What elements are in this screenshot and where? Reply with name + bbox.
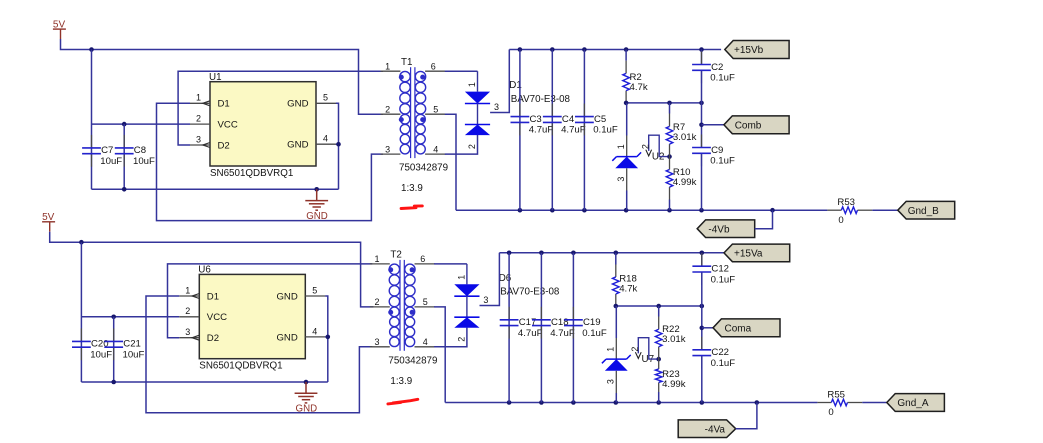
shunt reference U2 bbox=[612, 144, 664, 181]
resistor R53 bbox=[827, 197, 872, 226]
svg-text:1: 1 bbox=[467, 82, 477, 87]
wire R10 bottom bbox=[669, 200, 671, 211]
svg-text:U6: U6 bbox=[198, 265, 211, 276]
wire T2 pin5 down bbox=[434, 307, 445, 403]
svg-text:10uF: 10uF bbox=[123, 350, 145, 361]
wire C18 column bbox=[540, 253, 542, 403]
resistor R18 bbox=[613, 265, 638, 307]
svg-text:Comb: Comb bbox=[735, 120, 762, 131]
wire U6 GND pins bbox=[325, 296, 328, 382]
svg-text:0.1uF: 0.1uF bbox=[710, 156, 735, 167]
U7 anode pin bbox=[615, 371, 617, 393]
IC U6 bbox=[179, 265, 325, 372]
svg-text:5: 5 bbox=[433, 104, 438, 114]
svg-text:D2: D2 bbox=[207, 333, 219, 344]
junction -4Va rail x658.2 bbox=[656, 400, 661, 405]
svg-text:GND: GND bbox=[287, 140, 308, 151]
svg-text:2: 2 bbox=[374, 297, 379, 307]
junction Comb-R7 bbox=[667, 101, 672, 106]
svg-text:6: 6 bbox=[420, 254, 425, 264]
junction +15Va bus x508.6 bbox=[507, 251, 512, 256]
junction -4Va rail x756.3 bbox=[755, 400, 760, 405]
junction top bus x583.9 bbox=[582, 47, 587, 52]
junction top bus x519.4 bbox=[518, 47, 523, 52]
wire U1 pin4 stub bbox=[336, 143, 339, 145]
svg-text:4.7uF: 4.7uF bbox=[529, 125, 554, 136]
wire C12 to Coma bbox=[701, 273, 703, 350]
svg-text:2: 2 bbox=[196, 114, 201, 124]
svg-text:4.7k: 4.7k bbox=[619, 284, 637, 295]
wire R55 to Gnd_A bbox=[862, 402, 887, 404]
svg-text:C7: C7 bbox=[101, 145, 113, 156]
wire +15Vb bus (top) bbox=[509, 49, 721, 51]
svg-text:1: 1 bbox=[185, 285, 190, 295]
svg-text:1: 1 bbox=[456, 275, 466, 280]
svg-text:3: 3 bbox=[385, 144, 390, 154]
svg-text:3: 3 bbox=[374, 337, 379, 347]
wire T1 pin6 to D1 bbox=[445, 70, 478, 72]
capacitor C20 bbox=[72, 328, 112, 360]
wire U6 pin4 stub bbox=[325, 336, 328, 338]
capacitor C19 bbox=[564, 307, 607, 339]
svg-text:C17: C17 bbox=[519, 317, 537, 328]
svg-text:D1: D1 bbox=[218, 99, 230, 110]
wire ground rail (bottom) bbox=[81, 381, 327, 383]
svg-text:Gnd_A: Gnd_A bbox=[897, 398, 928, 409]
wire -4Vb tag bbox=[755, 210, 773, 229]
port +15Vb bbox=[725, 41, 789, 59]
transformer T2 bbox=[370, 250, 438, 387]
capacitor C9 bbox=[692, 135, 735, 167]
wire -4Va tag bbox=[736, 403, 757, 429]
svg-text:GND: GND bbox=[276, 291, 297, 302]
junction -4Vb rail x701 bbox=[699, 208, 704, 213]
dual diode D6 bbox=[454, 264, 560, 342]
junction (top 5V bus) bbox=[89, 47, 94, 52]
resistor R2 bbox=[623, 61, 648, 103]
junction -4Va rail x572.9 bbox=[571, 400, 576, 405]
svg-text:+15Va: +15Va bbox=[734, 249, 763, 260]
svg-text:C22: C22 bbox=[711, 347, 729, 358]
junction top bus x701 bbox=[699, 47, 704, 52]
wire U1 GND pins (top) bbox=[336, 103, 339, 189]
svg-text:4.7uF: 4.7uF bbox=[518, 328, 543, 339]
svg-text:2: 2 bbox=[467, 144, 477, 149]
svg-text:0.1uF: 0.1uF bbox=[711, 358, 736, 369]
svg-text:3: 3 bbox=[616, 177, 626, 182]
svg-text:VCC: VCC bbox=[218, 120, 238, 131]
svg-text:-4Va: -4Va bbox=[705, 424, 726, 435]
svg-text:VCC: VCC bbox=[207, 312, 227, 323]
wire R2 top bbox=[625, 50, 627, 61]
resistor R23 bbox=[655, 359, 685, 392]
junction U7 ref node bbox=[656, 357, 661, 362]
junction Coma-C12col bbox=[700, 304, 705, 309]
junction -4Vb rail x772 bbox=[770, 208, 775, 213]
svg-text:C21: C21 bbox=[123, 339, 141, 350]
wire D6 out to +15Va bus bbox=[480, 253, 500, 306]
port +15Va bbox=[724, 244, 790, 262]
wire VCC rail (top) bbox=[92, 123, 191, 125]
svg-text:SN6501QDBVRQ1: SN6501QDBVRQ1 bbox=[210, 168, 293, 179]
junction Coma-R18 bbox=[614, 304, 619, 309]
svg-text:R53: R53 bbox=[837, 197, 855, 208]
wire C19 column bbox=[572, 253, 574, 403]
junction -4Va rail x615.3 bbox=[614, 400, 619, 405]
svg-text:3: 3 bbox=[606, 379, 616, 384]
capacitor C4 bbox=[543, 104, 586, 136]
wire VCC drop (bottom) bbox=[80, 242, 82, 382]
svg-text:3.01k: 3.01k bbox=[662, 334, 686, 345]
junction U1 pin4 bbox=[336, 142, 341, 147]
U2 cathode pin bbox=[626, 136, 628, 157]
svg-text:2: 2 bbox=[630, 347, 640, 352]
svg-text:R55: R55 bbox=[827, 389, 845, 400]
junction +15Va bus x615.3 bbox=[614, 251, 619, 256]
wire C12 column top bbox=[701, 253, 703, 266]
U2 anode pin bbox=[626, 168, 628, 190]
svg-text:3: 3 bbox=[483, 295, 488, 305]
U7 cathode pin bbox=[615, 338, 617, 359]
junction U2 ref node bbox=[667, 154, 672, 159]
svg-text:1: 1 bbox=[385, 61, 390, 71]
wire Comb tag stub bbox=[702, 124, 724, 126]
shunt reference U7 bbox=[602, 347, 654, 384]
junction +15Va bus x540.9 bbox=[539, 251, 544, 256]
svg-text:T1: T1 bbox=[401, 57, 412, 68]
svg-text:C5: C5 bbox=[594, 114, 606, 125]
capacitor C2 bbox=[692, 52, 735, 84]
wire -4Vb rail bbox=[456, 209, 827, 211]
svg-text:2: 2 bbox=[456, 337, 466, 342]
port Comb bbox=[724, 116, 789, 134]
wire C4 column bbox=[551, 50, 553, 211]
junction -4Va rail x508.6 bbox=[507, 400, 512, 405]
capacitor C17 bbox=[500, 307, 543, 339]
svg-text:4.7k: 4.7k bbox=[630, 82, 648, 93]
junction -4Va rail x701.3 bbox=[700, 400, 705, 405]
wire U2 cathode bbox=[626, 103, 628, 136]
svg-text:1: 1 bbox=[616, 144, 626, 149]
wire U6 D2 to T2 pin1 bbox=[168, 264, 373, 338]
resistor R22 bbox=[655, 317, 685, 360]
svg-text:C18: C18 bbox=[551, 317, 569, 328]
wire U7 cathode bbox=[615, 306, 617, 338]
svg-text:C3: C3 bbox=[530, 114, 542, 125]
port -4Va bbox=[678, 420, 736, 438]
svg-text:0: 0 bbox=[838, 215, 843, 226]
wire T2 pin4 to D6 bbox=[434, 328, 467, 347]
svg-text:750342879: 750342879 bbox=[399, 163, 448, 174]
wire C17 column bbox=[508, 253, 510, 403]
wire U6 D1 to T2 pin3 bbox=[146, 296, 372, 413]
wire C9 bottom bbox=[701, 154, 703, 210]
svg-text:1:3.9: 1:3.9 bbox=[390, 376, 412, 387]
wire R53 to Gnd_B bbox=[872, 209, 898, 211]
svg-text:Gnd_B: Gnd_B bbox=[908, 206, 939, 217]
port Coma bbox=[713, 319, 780, 337]
wire R18 top bbox=[615, 253, 617, 265]
wire U1 D1 to T1 pin3 bbox=[157, 103, 384, 220]
svg-text:0.1uF: 0.1uF bbox=[582, 328, 607, 339]
svg-text:C4: C4 bbox=[562, 114, 575, 125]
wire C22 bottom bbox=[701, 356, 703, 402]
svg-text:0.1uF: 0.1uF bbox=[593, 125, 618, 136]
port Gnd_A bbox=[887, 394, 945, 412]
ground GND (top) bbox=[305, 189, 328, 222]
svg-text:6: 6 bbox=[431, 61, 436, 71]
resistor R10 bbox=[666, 157, 696, 200]
svg-text:3: 3 bbox=[494, 102, 499, 112]
junction -4Vb rail x669 bbox=[667, 208, 672, 213]
svg-text:C12: C12 bbox=[711, 264, 729, 275]
svg-text:C8: C8 bbox=[134, 145, 146, 156]
junction C21 top bbox=[111, 315, 116, 320]
transformer T1 bbox=[381, 57, 449, 194]
wire Comb rail bbox=[626, 102, 701, 104]
wire T1 pin4 to D1 bbox=[445, 135, 478, 154]
junction C8 bottom bbox=[122, 187, 127, 192]
svg-text:4: 4 bbox=[312, 326, 317, 336]
capacitor C7 bbox=[82, 135, 122, 167]
wire T1 pin5 down bbox=[445, 114, 456, 210]
svg-text:C19: C19 bbox=[583, 317, 601, 328]
svg-text:5: 5 bbox=[423, 297, 428, 307]
reference pin wire U7 ref bbox=[630, 338, 659, 359]
svg-text:750342879: 750342879 bbox=[388, 355, 437, 366]
svg-text:D2: D2 bbox=[218, 140, 230, 151]
wire R23 bottom bbox=[658, 392, 660, 403]
svg-text:4.7uF: 4.7uF bbox=[550, 328, 575, 339]
ground GND (bottom) bbox=[295, 382, 318, 415]
wire -4Va rail bbox=[445, 402, 817, 404]
junction Comb-R2 bbox=[624, 101, 629, 106]
svg-text:1: 1 bbox=[196, 93, 201, 103]
resistor R7 bbox=[666, 114, 696, 157]
wire 5V to bus (bottom) bbox=[50, 232, 374, 307]
wire C2 to Comb bbox=[701, 71, 703, 147]
svg-text:U1: U1 bbox=[209, 72, 222, 83]
junction U6 pin4 bbox=[326, 335, 331, 340]
capacitor C21 bbox=[104, 328, 144, 360]
junction +15Va bus x701.3 bbox=[700, 251, 705, 256]
svg-text:4.99k: 4.99k bbox=[662, 379, 686, 390]
svg-text:1: 1 bbox=[606, 347, 616, 352]
wire Coma tag stub bbox=[702, 327, 713, 329]
reference pin wire U2 ref bbox=[640, 135, 669, 156]
junction Coma-R22 bbox=[656, 304, 661, 309]
red annotation mark under T2 bbox=[388, 399, 418, 404]
wire +15Va bus bbox=[499, 252, 724, 254]
svg-text:1:3.9: 1:3.9 bbox=[401, 183, 423, 194]
svg-text:2: 2 bbox=[385, 104, 390, 114]
junction top bus x625.6 bbox=[624, 47, 629, 52]
svg-text:4.99k: 4.99k bbox=[673, 177, 697, 188]
capacitor C18 bbox=[532, 307, 575, 339]
junction Coma tag bbox=[700, 326, 705, 331]
wire C21 branch bbox=[113, 317, 115, 382]
svg-text:C20: C20 bbox=[91, 339, 109, 350]
junction -4Vb rail x519.4 bbox=[518, 208, 523, 213]
resistor R55 bbox=[817, 389, 862, 418]
svg-text:1: 1 bbox=[374, 254, 379, 264]
wire U7 anode bbox=[615, 393, 617, 403]
junction Comb-C2col bbox=[699, 101, 704, 106]
svg-text:+15Vb: +15Vb bbox=[734, 45, 764, 56]
wire Coma rail bbox=[616, 305, 702, 307]
svg-text:4: 4 bbox=[323, 134, 328, 144]
svg-text:3.01k: 3.01k bbox=[673, 132, 697, 143]
svg-text:0.1uF: 0.1uF bbox=[710, 73, 735, 84]
svg-text:4: 4 bbox=[423, 337, 428, 347]
svg-text:4.7uF: 4.7uF bbox=[561, 125, 586, 136]
wire VCC drop (top) bbox=[91, 50, 93, 190]
red annotation mark under T1 bbox=[401, 206, 422, 209]
wire R22 top bbox=[658, 306, 660, 317]
capacitor C12 bbox=[692, 253, 735, 285]
svg-text:0: 0 bbox=[828, 407, 833, 418]
junction -4Vb rail x551.8 bbox=[550, 208, 555, 213]
junction +15Va bus x572.9 bbox=[571, 251, 576, 256]
capacitor C8 bbox=[115, 135, 155, 167]
junction (bottom 5V bus) bbox=[79, 240, 84, 245]
wire U2 anode bbox=[626, 191, 628, 211]
wire T2 pin6 to D6 bbox=[434, 263, 467, 265]
svg-text:GND: GND bbox=[287, 99, 308, 110]
svg-text:10uF: 10uF bbox=[100, 156, 122, 167]
capacitor C22 bbox=[692, 337, 735, 369]
svg-text:10uF: 10uF bbox=[133, 156, 155, 167]
svg-text:4: 4 bbox=[433, 144, 438, 154]
svg-text:3: 3 bbox=[196, 134, 201, 144]
svg-text:GND: GND bbox=[276, 332, 297, 343]
wire C3 column bbox=[519, 50, 521, 211]
junction -4Va rail x540.9 bbox=[539, 400, 544, 405]
svg-text:5: 5 bbox=[312, 285, 317, 295]
svg-text:-4Vb: -4Vb bbox=[708, 224, 730, 235]
svg-text:C9: C9 bbox=[711, 145, 723, 156]
svg-text:SN6501QDBVRQ1: SN6501QDBVRQ1 bbox=[199, 361, 282, 372]
svg-text:D1: D1 bbox=[207, 291, 219, 302]
junction top bus x551.8 bbox=[550, 47, 555, 52]
svg-text:0.1uF: 0.1uF bbox=[711, 274, 736, 285]
port -4Vb bbox=[697, 220, 755, 238]
svg-text:Coma: Coma bbox=[725, 323, 752, 334]
svg-text:3: 3 bbox=[185, 327, 190, 337]
power port 5V (bottom) bbox=[42, 212, 55, 232]
junction -4Vb rail x583.9 bbox=[582, 208, 587, 213]
junction C8 top bbox=[122, 122, 127, 127]
wire C8 branch bbox=[123, 124, 125, 189]
dual diode D1 bbox=[465, 71, 571, 149]
wire VCC rail (bottom) bbox=[81, 316, 179, 318]
junction C21 bottom bbox=[111, 380, 116, 385]
junction GND symbol (bottom) bbox=[304, 380, 309, 385]
svg-text:2: 2 bbox=[185, 306, 190, 316]
port Gnd_B bbox=[898, 201, 955, 219]
svg-text:10uF: 10uF bbox=[90, 350, 112, 361]
svg-text:5: 5 bbox=[323, 93, 328, 103]
IC U1 bbox=[190, 72, 336, 179]
wire C5 column bbox=[583, 50, 585, 211]
wire C2 column top bbox=[701, 50, 703, 65]
wire D1 out to +15Vb bus bbox=[490, 50, 509, 113]
capacitor C5 bbox=[575, 104, 618, 136]
wire U1 D2 to T1 pin1 bbox=[178, 71, 383, 145]
wire 5V to bus (top) bbox=[61, 39, 384, 114]
junction Comb tag bbox=[699, 123, 704, 128]
capacitor C3 bbox=[511, 104, 554, 136]
svg-text:C2: C2 bbox=[711, 62, 723, 73]
wire ground rail (top) bbox=[92, 188, 339, 190]
junction -4Vb rail x625.6 bbox=[624, 208, 629, 213]
svg-text:2: 2 bbox=[640, 144, 650, 149]
power port 5V (top) bbox=[53, 19, 66, 39]
junction GND symbol (top) bbox=[314, 187, 319, 192]
svg-text:T2: T2 bbox=[390, 250, 401, 261]
wire R7 top bbox=[669, 103, 671, 114]
